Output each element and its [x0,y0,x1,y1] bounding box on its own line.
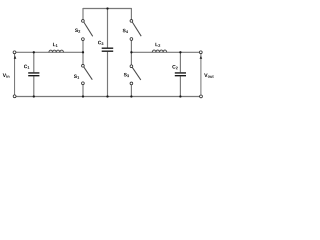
svg-text:L1: L1 [53,42,58,48]
wire mid-left rail [16,51,83,53]
svg-text:C1: C1 [24,64,30,70]
Vin arrow [14,56,17,59]
wire mid-right rail [131,51,199,53]
wire Vin port line [14,54,16,95]
wire C2 branch verticals [179,52,181,96]
capacitor C3 [102,48,114,51]
wire left branch verticals [82,8,84,97]
wire C3 branch verticals [107,9,109,97]
terminal Vout bottom [200,95,203,98]
capacitor C1 [28,73,39,76]
terminal Vout top [199,51,202,54]
wire top rail [83,8,132,10]
svg-text:L2: L2 [155,42,160,48]
svg-text:S2: S2 [75,28,81,34]
svg-text:C3: C3 [98,40,104,46]
node mid right branch junction [130,51,132,53]
node mid C2 junction [179,51,181,53]
svg-text:Vout: Vout [204,73,214,79]
node top C3 junction [106,7,108,9]
node bottom S3 junction [130,95,132,97]
capacitor C2 [175,73,186,76]
svg-text:C2: C2 [172,64,178,70]
wire Vout port line [200,54,202,95]
switch S4 [130,20,133,23]
wire right branch verticals [130,8,132,97]
svg-text:S3: S3 [124,72,130,78]
inductor L1 [49,50,64,52]
node bottom C2 junction [179,95,181,97]
switch S3 [130,65,133,68]
svg-text:S4: S4 [122,28,128,34]
Vout arrow [200,56,203,59]
wire bottom rail [16,96,200,98]
inductor L2 [152,50,166,52]
node bottom C1 junction [33,95,35,97]
svg-text:S1: S1 [74,74,80,80]
node bottom C3 junction [106,95,108,97]
switch S1 [82,64,85,67]
node bottom S1 junction [82,95,84,97]
svg-text:Vin: Vin [3,73,11,79]
node mid left branch junction [82,51,84,53]
switch S2 [82,20,85,23]
node mid C1 junction [33,51,35,53]
terminal Vin top [13,51,16,54]
terminal Vin bottom [13,95,16,98]
wire C1 branch verticals [33,52,35,96]
